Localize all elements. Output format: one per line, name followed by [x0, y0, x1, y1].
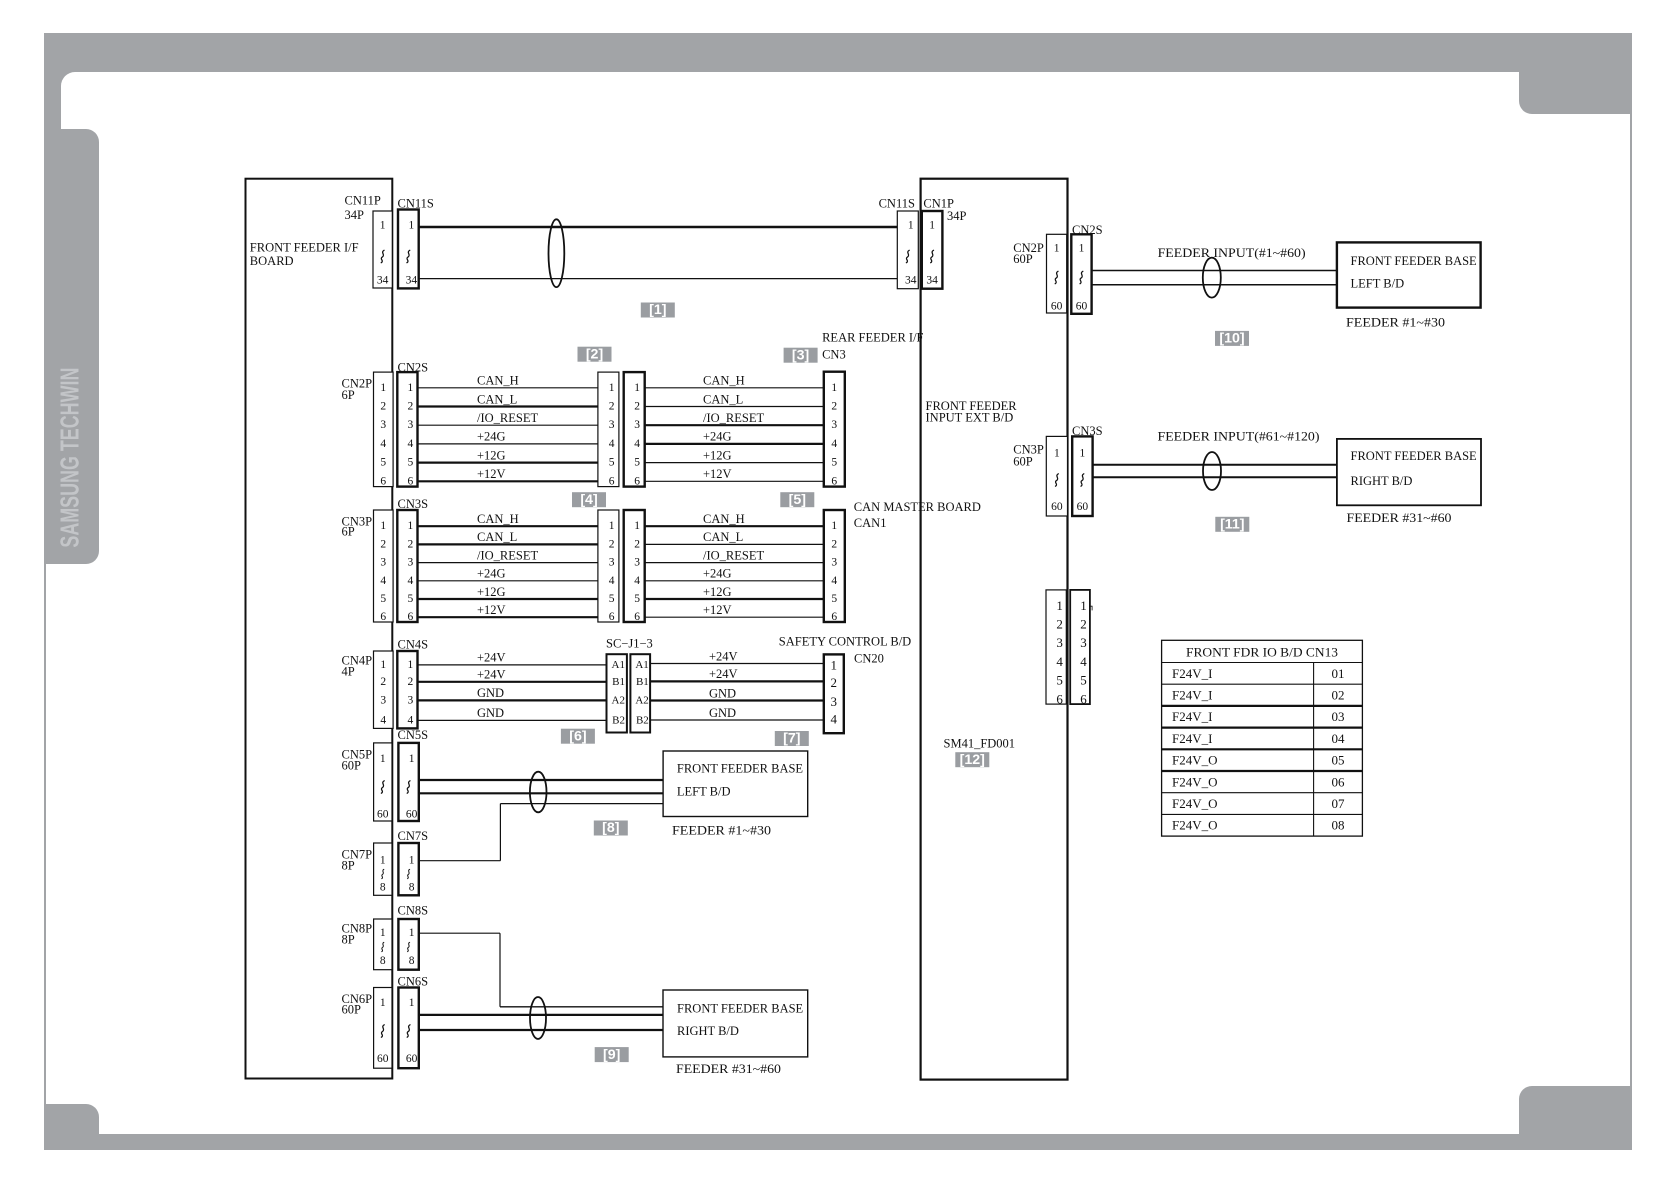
svg-text:2: 2 — [831, 675, 838, 690]
wire [3]-to-CN3 +24G — [645, 443, 824, 445]
reference label [11] — [1215, 517, 1249, 533]
svg-text:LEFT B/D: LEFT B/D — [1351, 277, 1405, 291]
svg-text:GND: GND — [709, 686, 736, 700]
IO conn pin1 stub — [1090, 606, 1092, 610]
reference label [6] — [561, 728, 595, 744]
wire [3]-to-CN3 +12V — [645, 480, 824, 482]
svg-text:[10]: [10] — [1219, 331, 1244, 347]
svg-text:F24V_O: F24V_O — [1172, 774, 1218, 789]
svg-text:SM41_FD001: SM41_FD001 — [944, 737, 1016, 751]
svg-text:FEEDER #1~#30: FEEDER #1~#30 — [672, 824, 771, 838]
svg-text:5: 5 — [831, 593, 837, 605]
svg-text:4: 4 — [380, 714, 386, 726]
svg-text:CN3: CN3 — [822, 348, 846, 362]
svg-text:+24V: +24V — [477, 651, 506, 665]
svg-text:2: 2 — [634, 401, 640, 413]
connector CN11S right — [897, 211, 918, 289]
svg-text:[12]: [12] — [960, 752, 985, 768]
svg-text:2: 2 — [380, 676, 386, 688]
svg-text:6: 6 — [408, 475, 414, 487]
svg-text:06: 06 — [1332, 774, 1346, 789]
connector CN11S left — [398, 210, 419, 289]
box: FRONT FEEDER BASE LEFT B/D (top right) — [1337, 242, 1481, 307]
svg-text:4: 4 — [609, 438, 615, 450]
svg-text:1: 1 — [409, 753, 415, 765]
svg-text:5: 5 — [408, 593, 414, 605]
svg-text:3: 3 — [1056, 635, 1063, 650]
svg-text:34P: 34P — [947, 209, 967, 223]
svg-text:3: 3 — [380, 419, 386, 431]
wire CN2S-to-[2] /IO_RESET — [418, 424, 598, 426]
svg-text:3: 3 — [634, 419, 640, 431]
svg-text:5: 5 — [609, 593, 615, 605]
svg-text:3: 3 — [609, 419, 615, 431]
connector [4] cable conn left — [598, 510, 619, 623]
svg-text:FEEDER INPUT(#1~#60): FEEDER INPUT(#1~#60) — [1158, 246, 1306, 260]
svg-text:FRONT FDR IO B/D CN13: FRONT FDR IO B/D CN13 — [1186, 644, 1338, 659]
svg-text:60: 60 — [377, 809, 389, 821]
wire [3]-to-CN3 CAN_H — [645, 387, 824, 389]
svg-text:1: 1 — [408, 520, 414, 532]
connector CN3S left — [397, 510, 417, 623]
svg-text:F24V_I: F24V_I — [1172, 731, 1212, 746]
svg-text:1: 1 — [408, 220, 414, 232]
wire CN4S-to-SC-J1-3 +24V — [418, 681, 607, 683]
svg-text:1: 1 — [408, 659, 414, 671]
svg-text:CAN_H: CAN_H — [477, 512, 519, 526]
svg-text:1: 1 — [609, 382, 615, 394]
svg-text:5: 5 — [380, 593, 386, 605]
frame: top-right tab — [1519, 33, 1632, 114]
wire feeder input bus1 b — [1092, 284, 1337, 286]
connector CN3P left — [374, 510, 394, 623]
svg-text:5: 5 — [634, 457, 640, 469]
svg-text:08: 08 — [1332, 818, 1345, 833]
svg-text:CAN_H: CAN_H — [703, 512, 745, 526]
svg-text:CAN_H: CAN_H — [703, 374, 745, 388]
svg-text:5: 5 — [408, 457, 414, 469]
svg-text:2: 2 — [831, 538, 837, 550]
svg-text:/IO_RESET: /IO_RESET — [477, 548, 538, 562]
svg-text:60P: 60P — [342, 1002, 362, 1016]
svg-text:4: 4 — [831, 712, 838, 727]
svg-text:CAN_H: CAN_H — [477, 374, 519, 388]
svg-text:+24V: +24V — [477, 668, 506, 682]
svg-text:/IO_RESET: /IO_RESET — [703, 548, 764, 562]
svg-text:4: 4 — [634, 438, 640, 450]
svg-text:FRONT FEEDER BASE: FRONT FEEDER BASE — [1351, 254, 1478, 268]
connector IO conn left (right board) — [1046, 590, 1066, 706]
svg-text:4P: 4P — [342, 664, 355, 678]
svg-text:+12G: +12G — [477, 448, 506, 462]
svg-text:3: 3 — [634, 557, 640, 569]
svg-text:/IO_RESET: /IO_RESET — [477, 411, 538, 425]
svg-text:1: 1 — [380, 997, 386, 1009]
svg-text:+24G: +24G — [477, 567, 506, 581]
svg-text:60: 60 — [406, 1053, 418, 1065]
svg-text:[6]: [6] — [569, 728, 586, 744]
svg-text:6: 6 — [831, 611, 837, 623]
svg-text:1: 1 — [1056, 598, 1063, 613]
wire [3]-to-CN3 +12G — [645, 462, 824, 464]
connector CN3 (REAR FEEDER I/F) — [824, 372, 845, 488]
svg-text:BOARD: BOARD — [250, 254, 294, 268]
connector CN2P right-board — [1047, 234, 1067, 313]
connector CN6S — [398, 988, 418, 1069]
wire CN3S-to-[4] +12G — [418, 598, 598, 600]
svg-text:CAN1: CAN1 — [854, 516, 887, 530]
svg-text:34: 34 — [926, 275, 938, 287]
svg-text:SC−J1−3: SC−J1−3 — [606, 637, 653, 651]
frame: left thick edge (upper) — [44, 33, 61, 564]
svg-text:+24G: +24G — [703, 567, 732, 581]
svg-text:+24G: +24G — [477, 430, 506, 444]
wire feeder input bus1 a — [1092, 270, 1337, 272]
svg-text:8P: 8P — [342, 859, 355, 873]
wire SC-J1-3-to-CN20 GND — [650, 699, 824, 701]
svg-text:/IO_RESET: /IO_RESET — [703, 411, 764, 425]
svg-text:4: 4 — [831, 575, 837, 587]
connector CN2S right-board — [1071, 234, 1091, 313]
svg-text:60P: 60P — [1013, 455, 1033, 469]
svg-text:+24V: +24V — [709, 649, 738, 663]
wire CN7S riser vertical — [499, 804, 501, 861]
cable bundle ellipse [10] cable — [1203, 258, 1221, 298]
wire CN3S-to-[4] CAN_L — [418, 543, 598, 545]
svg-text:34: 34 — [406, 275, 418, 287]
svg-text:2: 2 — [380, 401, 386, 413]
svg-text:SAFETY CONTROL B/D: SAFETY CONTROL B/D — [779, 635, 911, 649]
svg-text:34: 34 — [905, 275, 917, 287]
svg-text:6: 6 — [380, 611, 386, 623]
svg-text:2: 2 — [1056, 617, 1063, 632]
svg-text:1: 1 — [409, 927, 415, 939]
svg-text:CN7S: CN7S — [398, 829, 429, 843]
svg-text:[7]: [7] — [783, 731, 800, 747]
svg-text:4: 4 — [408, 714, 414, 726]
svg-text:1: 1 — [609, 520, 615, 532]
svg-text:+24G: +24G — [703, 430, 732, 444]
svg-text:1: 1 — [908, 220, 914, 232]
svg-text:3: 3 — [380, 557, 386, 569]
svg-text:6: 6 — [1056, 691, 1063, 706]
frame: bottom-left tab — [44, 1104, 99, 1150]
svg-text:F24V_I: F24V_I — [1172, 688, 1212, 703]
reference label [8] — [594, 820, 628, 836]
svg-text:2: 2 — [609, 401, 615, 413]
svg-text:03: 03 — [1332, 709, 1345, 724]
svg-text:[1]: [1] — [649, 302, 666, 318]
connector CN11P — [373, 211, 392, 288]
svg-text:4: 4 — [831, 438, 837, 450]
svg-text:3: 3 — [1080, 635, 1087, 650]
svg-text:60: 60 — [406, 809, 418, 821]
connector SC-J1-3 conn left — [607, 654, 627, 732]
svg-text:CN11P: CN11P — [345, 193, 381, 207]
svg-text:6P: 6P — [342, 388, 355, 402]
svg-text:[8]: [8] — [602, 820, 619, 836]
svg-text:1: 1 — [634, 520, 640, 532]
svg-text:A1: A1 — [635, 659, 648, 671]
connector CN6P — [374, 988, 392, 1069]
wire CN2S-to-[2] CAN_L — [418, 405, 598, 407]
svg-text:8: 8 — [380, 955, 386, 967]
svg-text:RIGHT B/D: RIGHT B/D — [677, 1024, 739, 1038]
connector CN8S — [398, 919, 418, 970]
svg-text:[11]: [11] — [1220, 517, 1244, 533]
svg-text:3: 3 — [609, 557, 615, 569]
svg-text:1: 1 — [380, 220, 386, 232]
svg-text:INPUT EXT B/D: INPUT EXT B/D — [926, 411, 1014, 425]
cable bundle ellipse [1] cable — [549, 219, 565, 287]
wire [3]-to-CN3 /IO_RESET — [645, 424, 824, 426]
wire CN8S pin1 stub — [419, 932, 500, 934]
cable bundle ellipse [9] cable — [530, 997, 546, 1039]
svg-text:3: 3 — [408, 557, 414, 569]
svg-text:1: 1 — [634, 382, 640, 394]
connector [4] cable conn right — [624, 510, 645, 623]
svg-text:+12V: +12V — [703, 603, 732, 617]
cable bundle ellipse [8] cable — [530, 772, 547, 813]
svg-text:F24V_O: F24V_O — [1172, 796, 1218, 811]
connector CN3S right-board — [1072, 436, 1092, 516]
wire CN11 bus pin34 — [419, 278, 898, 280]
wire [5]-to-CAN1 +24G — [645, 580, 824, 582]
svg-text:05: 05 — [1332, 753, 1345, 768]
connector CN4P — [374, 651, 394, 728]
reference label [10] — [1215, 331, 1249, 347]
svg-text:1: 1 — [380, 520, 386, 532]
svg-text:FRONT FEEDER BASE: FRONT FEEDER BASE — [677, 762, 804, 776]
svg-text:8: 8 — [409, 955, 415, 967]
svg-text:2: 2 — [1080, 617, 1087, 632]
svg-text:3: 3 — [831, 694, 838, 709]
svg-text:6: 6 — [609, 475, 615, 487]
svg-text:1: 1 — [1054, 243, 1060, 255]
svg-text:1: 1 — [380, 659, 386, 671]
connector [2] cable conn right — [624, 372, 645, 487]
svg-text:B2: B2 — [612, 714, 625, 726]
reference label [5] — [780, 492, 814, 508]
svg-text:[3]: [3] — [792, 347, 809, 363]
wire FFB-left return horizontal — [500, 803, 663, 805]
svg-text:1: 1 — [831, 657, 838, 672]
svg-text:6P: 6P — [342, 525, 355, 539]
connector IO conn right (right board) — [1070, 590, 1090, 706]
svg-text:1: 1 — [831, 520, 837, 532]
connector [2] cable conn left — [598, 372, 619, 487]
svg-text:60P: 60P — [342, 759, 362, 773]
svg-text:F24V_I: F24V_I — [1172, 666, 1212, 681]
svg-text:8: 8 — [409, 882, 415, 894]
svg-text:RIGHT B/D: RIGHT B/D — [1351, 474, 1413, 488]
svg-text:CN5S: CN5S — [398, 728, 429, 742]
svg-text:[9]: [9] — [603, 1047, 620, 1063]
svg-text:1: 1 — [380, 855, 386, 867]
svg-text:B1: B1 — [636, 676, 649, 688]
reference label [9] — [595, 1047, 629, 1063]
svg-text:3: 3 — [408, 419, 414, 431]
svg-text:1: 1 — [408, 382, 414, 394]
svg-text:6: 6 — [408, 611, 414, 623]
reference label [7] — [775, 731, 809, 747]
svg-text:A1: A1 — [612, 659, 625, 671]
wire CN2S-to-[2] +12V — [418, 480, 598, 482]
connector CN1P — [922, 211, 943, 289]
connector CN2S left — [397, 372, 417, 487]
frame: bottom gray band — [44, 1134, 1632, 1150]
svg-text:CAN MASTER BOARD: CAN MASTER BOARD — [854, 500, 981, 514]
svg-text:6: 6 — [380, 475, 386, 487]
svg-text:GND: GND — [477, 686, 504, 700]
frame: left tab (SAMSUNG TECHWIN) — [50, 129, 99, 564]
svg-text:4: 4 — [1080, 654, 1087, 669]
svg-text:3: 3 — [408, 694, 414, 706]
svg-text:+12V: +12V — [477, 467, 506, 481]
svg-text:1: 1 — [1054, 447, 1060, 459]
svg-text:FEEDER #1~#30: FEEDER #1~#30 — [1346, 316, 1445, 330]
board: FRONT FEEDER I/F BOARD (left) — [246, 179, 393, 1079]
wire CN2S-to-[2] CAN_H — [418, 387, 598, 389]
connector CN5S — [398, 743, 418, 821]
svg-text:CAN_L: CAN_L — [477, 392, 517, 406]
svg-text:5: 5 — [634, 593, 640, 605]
connector CN7P — [374, 843, 392, 895]
svg-text:CAN_L: CAN_L — [477, 530, 517, 544]
svg-text:+12G: +12G — [703, 448, 732, 462]
wire feeder input bus2 b — [1093, 476, 1337, 478]
svg-text:4: 4 — [380, 575, 386, 587]
reference label [4] — [572, 492, 606, 508]
svg-text:8P: 8P — [342, 933, 355, 947]
svg-text:FEEDER #31~#60: FEEDER #31~#60 — [676, 1062, 781, 1076]
svg-text:01: 01 — [1332, 666, 1345, 681]
svg-text:4: 4 — [609, 575, 615, 587]
svg-text:1: 1 — [1080, 598, 1087, 613]
svg-text:FRONT FEEDER BASE: FRONT FEEDER BASE — [677, 1001, 804, 1015]
wire CN7S pin1 stub — [419, 860, 501, 862]
reference label [1] — [641, 302, 675, 318]
box: FRONT FEEDER BASE LEFT B/D (mid) — [663, 751, 808, 817]
svg-text:+12V: +12V — [703, 467, 732, 481]
svg-text:6: 6 — [634, 611, 640, 623]
svg-text:2: 2 — [831, 401, 837, 413]
wire [3]-to-CN3 CAN_L — [645, 406, 824, 408]
svg-text:60: 60 — [1051, 501, 1063, 513]
svg-text:GND: GND — [477, 706, 504, 720]
table: FRONT FDR IO B/D CN13 — [1162, 640, 1363, 836]
frame: bottom-right tab — [1519, 1086, 1632, 1150]
svg-text:1: 1 — [380, 927, 386, 939]
frame: left thin rule — [44, 564, 46, 1150]
connector CN4S — [397, 651, 417, 728]
box: FRONT FEEDER BASE RIGHT B/D (right) — [1337, 439, 1481, 505]
svg-text:5: 5 — [1080, 673, 1087, 688]
svg-text:1: 1 — [831, 382, 837, 394]
svg-text:1: 1 — [380, 753, 386, 765]
reference label [2] — [578, 346, 612, 362]
svg-text:4: 4 — [1056, 654, 1063, 669]
svg-text:B1: B1 — [612, 676, 625, 688]
svg-text:4: 4 — [408, 438, 414, 450]
wire CN8S feed into FFB right — [500, 1006, 663, 1008]
svg-text:34: 34 — [377, 275, 389, 287]
svg-text:8: 8 — [380, 882, 386, 894]
box: FRONT FEEDER BASE RIGHT B/D (bottom) — [663, 990, 808, 1057]
svg-text:1: 1 — [409, 997, 415, 1009]
connector CN3P right-board — [1046, 436, 1067, 516]
wire CN4S-to-SC-J1-3 GND — [418, 699, 607, 701]
wire CN4S-to-SC-J1-3 GND — [418, 719, 607, 721]
svg-text:3: 3 — [380, 694, 386, 706]
svg-text:2: 2 — [408, 676, 414, 688]
board: FRONT FEEDER INPUT EXT B/D (right) — [921, 179, 1068, 1080]
svg-text:F24V_I: F24V_I — [1172, 709, 1212, 724]
wire CN6S bus b — [419, 1029, 663, 1031]
svg-text:34P: 34P — [345, 208, 365, 222]
svg-text:+24V: +24V — [709, 667, 738, 681]
svg-text:60: 60 — [1076, 301, 1088, 313]
svg-text:[4]: [4] — [580, 492, 597, 508]
reference label [12] — [955, 752, 989, 768]
svg-text:2: 2 — [408, 401, 414, 413]
svg-text:[2]: [2] — [586, 346, 603, 362]
svg-text:A2: A2 — [635, 694, 648, 706]
svg-text:CN8S: CN8S — [398, 904, 429, 918]
svg-text:FRONT FEEDER I/F: FRONT FEEDER I/F — [250, 240, 359, 254]
wire [5]-to-CAN1 /IO_RESET — [645, 562, 824, 564]
wire [5]-to-CAN1 CAN_H — [645, 525, 824, 527]
svg-text:1: 1 — [409, 855, 415, 867]
frame: right thin rule — [1630, 33, 1632, 1150]
wire SC-J1-3-to-CN20 +24V — [650, 680, 824, 682]
wire CN3S-to-[4] +24G — [418, 580, 598, 582]
svg-text:CAN_L: CAN_L — [703, 392, 743, 406]
svg-text:6: 6 — [609, 611, 615, 623]
svg-text:04: 04 — [1332, 731, 1346, 746]
svg-text:2: 2 — [634, 538, 640, 550]
svg-text:SAMSUNG TECHWIN: SAMSUNG TECHWIN — [55, 368, 85, 548]
svg-text:1: 1 — [929, 220, 935, 232]
svg-text:60: 60 — [1051, 301, 1063, 313]
svg-text:60: 60 — [377, 1053, 389, 1065]
svg-text:CN11S: CN11S — [879, 197, 915, 211]
wire CN3S-to-[4] +12V — [418, 616, 598, 618]
svg-text:4: 4 — [408, 575, 414, 587]
wire SC-J1-3-to-CN20 +24V — [650, 663, 824, 665]
svg-text:+12G: +12G — [703, 585, 732, 599]
svg-text:CAN_L: CAN_L — [703, 530, 743, 544]
wire feeder input bus2 a — [1093, 464, 1337, 466]
svg-text:2: 2 — [380, 538, 386, 550]
svg-text:5: 5 — [831, 457, 837, 469]
svg-text:FEEDER #31~#60: FEEDER #31~#60 — [1347, 511, 1452, 525]
svg-text:07: 07 — [1332, 796, 1346, 811]
svg-text:REAR FEEDER I/F: REAR FEEDER I/F — [822, 331, 923, 345]
svg-text:+12V: +12V — [477, 603, 506, 617]
svg-text:F24V_O: F24V_O — [1172, 753, 1218, 768]
wire CN8S drop vertical — [499, 933, 501, 1007]
connector SC-J1-3 conn right — [630, 654, 650, 732]
cable bundle ellipse [11] cable — [1203, 452, 1221, 490]
svg-text:6: 6 — [1080, 691, 1087, 706]
svg-text:FRONT FEEDER BASE: FRONT FEEDER BASE — [1351, 449, 1478, 463]
svg-text:5: 5 — [609, 457, 615, 469]
wire CN5S bus a — [419, 779, 663, 781]
connector CN2P left — [374, 372, 394, 487]
svg-text:6: 6 — [634, 475, 640, 487]
svg-text:2: 2 — [609, 538, 615, 550]
